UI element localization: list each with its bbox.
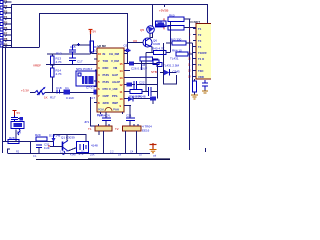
IC U3 pin names	[198, 27, 207, 79]
transistor Q1	[48, 136, 75, 155]
svg-text:V_DM: V_DM	[111, 59, 119, 63]
resistor R16 vertical	[90, 41, 100, 54]
svg-text:U2 8M: U2 8M	[98, 44, 107, 48]
svg-text:T1: T1	[88, 127, 92, 131]
resistor R13	[51, 56, 62, 65]
connector J1 pin 8	[0, 37, 12, 42]
svg-text:cal: cal	[153, 155, 157, 158]
svg-text:4.7K: 4.7K	[56, 72, 62, 76]
svg-text:+3.3V: +3.3V	[21, 89, 29, 93]
wire C15 top row	[73, 44, 91, 46]
wire VCC drop	[90, 34, 92, 54]
svg-text:C21: C21	[126, 114, 132, 118]
svg-text:PGM: PGM	[98, 109, 104, 112]
trimpot VR1	[30, 87, 46, 95]
IC U2 bottom pin a	[100, 112, 102, 114]
wire T1 stub	[98, 131, 100, 135]
wire Q5 down	[149, 34, 151, 40]
IC U2 pin numbers left	[98, 52, 102, 105]
wire T1 left down	[103, 131, 105, 153]
IC U2 right pins	[124, 54, 157, 106]
svg-text:VDD: VDD	[198, 75, 204, 79]
transformer T1	[88, 124, 112, 131]
IC U2 body	[97, 48, 124, 112]
IC U3 body	[196, 24, 212, 80]
resistor R28	[8, 136, 19, 144]
svg-text:T1: T1	[198, 27, 202, 31]
resistor R29	[35, 133, 47, 141]
capacitor C70	[202, 80, 208, 89]
svg-text:4148: 4148	[70, 154, 76, 157]
svg-text:3WP: 3WP	[112, 101, 118, 105]
net label E	[150, 97, 156, 105]
svg-text:PPb: PPb	[112, 94, 118, 98]
IC U2 pin numbers right	[120, 62, 124, 108]
svg-text:3WD: 3WD	[103, 101, 109, 105]
wire Q6 emitter drop	[152, 47, 154, 53]
svg-text:15: 15	[120, 62, 124, 66]
svg-text:4148: 4148	[91, 144, 98, 148]
connector J1 pin 5	[0, 21, 12, 26]
IC U2 bottom arc	[105, 108, 112, 111]
wire T2 left down	[125, 131, 127, 153]
svg-text:CH_DM: CH_DM	[109, 52, 120, 56]
svg-text:TXD: TXD	[103, 59, 109, 63]
net label FB	[129, 62, 134, 66]
wire bottom step	[8, 149, 11, 153]
wire cluster drop	[15, 130, 17, 142]
svg-text:EE16: EE16	[142, 129, 150, 133]
junction cross	[77, 43, 80, 46]
IC U2 pin names	[103, 52, 121, 105]
svg-text:4.7K: 4.7K	[56, 60, 62, 64]
svg-text:C1: C1	[65, 86, 69, 90]
svg-text:+5VSB: +5VSB	[159, 9, 168, 13]
capacitor C15	[69, 45, 76, 54]
svg-text:C945: C945	[173, 70, 181, 74]
svg-text:0.1: 0.1	[33, 155, 37, 158]
svg-text:IN: IN	[103, 52, 106, 56]
svg-text:C_LMI: C_LMI	[109, 87, 118, 91]
svg-text:5V: 5V	[17, 111, 21, 115]
wire connector bus	[11, 5, 13, 48]
resistor R70 vertical	[193, 79, 197, 92]
svg-text:TL431 2.5M: TL431 2.5M	[163, 63, 180, 67]
svg-text:NPN PC817: NPN PC817	[76, 67, 93, 71]
svg-text:C22: C22	[139, 81, 145, 85]
diode D8	[128, 95, 150, 102]
box D9	[11, 122, 24, 136]
corner mark	[205, 148, 207, 152]
svg-text:T3O: T3O	[198, 69, 204, 73]
svg-text:PUIS: PUIS	[103, 80, 110, 84]
wire Q6 collector	[151, 33, 153, 38]
wire vert x141	[141, 61, 143, 70]
svg-text:C6: C6	[124, 44, 128, 48]
svg-text:2SK: 2SK	[90, 154, 95, 157]
svg-text:Q5: Q5	[140, 28, 144, 32]
wire driver top	[54, 135, 87, 142]
cluster top-left bottom: capacitor C30	[11, 111, 23, 122]
connector J1 pin 7	[0, 32, 12, 37]
wire mid row	[45, 92, 97, 94]
wire Q1 base	[50, 146, 63, 148]
wire Q1 collector up	[66, 135, 68, 141]
svg-text:1K: 1K	[44, 96, 48, 100]
wire pin9 drop	[124, 106, 130, 109]
wire vert right of U2	[157, 64, 159, 99]
svg-text:NTC: NTC	[103, 87, 109, 91]
capacitor C21	[126, 107, 135, 126]
svg-text:GAP: GAP	[112, 73, 118, 77]
svg-text:Q1 C3039: Q1 C3039	[61, 136, 75, 140]
capacitor C19	[86, 86, 97, 101]
wire right bus B	[193, 43, 195, 81]
capacitor C23	[149, 87, 158, 96]
ground rail	[8, 153, 151, 155]
transistor Q2 box	[77, 142, 89, 155]
resistor R41	[140, 57, 159, 62]
connector J1 pin 3	[0, 10, 12, 15]
net label box 5VSB	[156, 21, 167, 27]
svg-text:T2: T2	[115, 127, 119, 131]
svg-text:1N: 1N	[118, 154, 121, 157]
connector J1 pin 9	[0, 42, 12, 47]
wire chain mid	[52, 65, 54, 69]
svg-text:C18: C18	[56, 86, 62, 90]
net label row	[141, 63, 180, 68]
svg-text:STB: STB	[151, 70, 157, 74]
node +3.3V	[21, 89, 29, 93]
svg-text:R29: R29	[35, 133, 41, 137]
IC U2 bottom labels	[98, 109, 119, 112]
svg-text:1UF: 1UF	[44, 146, 50, 150]
svg-text:4.7: 4.7	[91, 96, 96, 100]
svg-text:5V: 5V	[93, 30, 97, 34]
resistor R60	[163, 14, 191, 22]
svg-text:T4: T4	[198, 45, 202, 49]
wire Q6 base	[128, 42, 144, 44]
svg-text:C20: C20	[97, 113, 103, 117]
ground symbol red	[150, 143, 157, 153]
svg-text:AGAP: AGAP	[112, 80, 120, 84]
svg-text:PWM: PWM	[113, 109, 119, 112]
title block border line	[36, 159, 88, 161]
capacitor C20	[97, 112, 111, 126]
power flag VCC	[89, 30, 97, 35]
connector J1 pin 4	[0, 15, 12, 20]
svg-text:R17: R17	[50, 96, 56, 100]
connector J1 pin 1	[0, 0, 12, 4]
wire supply row	[47, 53, 91, 55]
transformer T2	[115, 124, 152, 133]
svg-text:11: 11	[120, 90, 123, 94]
IC U3 pins	[193, 29, 196, 77]
wire Q1-Q2	[68, 148, 77, 152]
resistor R61	[163, 26, 196, 31]
svg-text:14: 14	[120, 69, 124, 73]
connector J1 body	[2, 1, 4, 47]
node +5VSB label	[159, 5, 168, 13]
opto box U1	[76, 67, 96, 86]
diode D1	[49, 134, 61, 147]
wire bottom row	[3, 141, 54, 143]
svg-text:VM: VM	[113, 66, 118, 70]
svg-text:CMP: CMP	[103, 94, 109, 98]
diode D7	[64, 86, 75, 100]
resistor R40	[152, 47, 171, 55]
svg-text:T2: T2	[198, 33, 202, 37]
wire right bus A	[189, 19, 191, 150]
junction node 127,51	[124, 44, 131, 53]
wire U2 left vert link	[91, 97, 96, 126]
svg-text:R40 4.7K: R40 4.7K	[152, 47, 165, 51]
svg-text:C17: C17	[77, 60, 83, 64]
connector J1 pin 2	[0, 4, 12, 9]
transistor Q5	[140, 26, 154, 34]
wire second top rail	[40, 14, 128, 64]
svg-text:1N4148: 1N4148	[135, 95, 146, 99]
wire Q5 collector drop	[152, 5, 154, 27]
svg-text:10: 10	[98, 52, 102, 56]
svg-text:T1 O: T1 O	[198, 57, 205, 61]
wire connector bottom run	[3, 47, 40, 49]
transistor Q6	[133, 38, 161, 48]
net box top right	[153, 60, 159, 65]
IC U2 left pins	[94, 54, 97, 103]
svg-text:PUIS: PUIS	[103, 73, 110, 77]
ground U3	[191, 92, 198, 99]
svg-text:TL431: TL431	[170, 57, 179, 61]
resistor R50	[129, 90, 148, 99]
svg-text:1.2: 1.2	[60, 151, 64, 154]
wire loop bottom	[164, 73, 177, 84]
rail text marks	[16, 151, 157, 159]
wire mid vertical	[170, 22, 172, 52]
diode D60	[151, 69, 180, 76]
svg-text:RXD: RXD	[103, 66, 109, 70]
wire vert x146	[145, 53, 147, 92]
svg-text:C945: C945	[153, 42, 161, 46]
svg-text:T3: T3	[198, 39, 202, 43]
svg-text:0.1UF: 0.1UF	[66, 96, 74, 100]
wire T2 right down	[136, 131, 138, 153]
svg-text:U4 MDT: U4 MDT	[190, 20, 200, 24]
connector J1 pin 6	[0, 26, 12, 31]
svg-text:VREF: VREF	[33, 64, 41, 68]
svg-text:T3: T3	[198, 63, 202, 67]
svg-text:10: 10	[120, 97, 124, 101]
resistor R63	[166, 38, 193, 46]
wire Q5 to bus	[165, 22, 171, 26]
capacitor C18	[56, 86, 62, 94]
capacitor C17	[69, 54, 83, 65]
wire mid vertical2	[163, 43, 165, 73]
svg-text:T1OFF: T1OFF	[198, 51, 207, 55]
net label box Q5	[155, 21, 165, 28]
capacitor C31	[36, 143, 50, 154]
wire top +5VSB rail	[12, 5, 208, 24]
svg-text:2.2: 2.2	[110, 151, 114, 154]
svg-text:R12: R12	[56, 52, 62, 56]
node VREF	[33, 64, 97, 68]
svg-text:JP1: JP1	[84, 120, 90, 124]
resistor R64	[170, 49, 193, 61]
resistor R14	[51, 68, 62, 77]
ground C70	[202, 89, 208, 93]
wire chain bottom	[52, 77, 54, 93]
capacitor C21r	[127, 81, 158, 90]
IC U2 bottom pin b	[122, 112, 124, 114]
svg-text:C26 0.01UF: C26 0.01UF	[131, 67, 147, 71]
wire pin13 to bus	[133, 63, 158, 65]
IC U3 pin numbers	[188, 28, 191, 79]
wire chain	[52, 54, 54, 56]
wire junction drop	[30, 142, 32, 154]
wire left vertical A	[2, 46, 4, 153]
wire left vertical B	[5, 47, 7, 141]
